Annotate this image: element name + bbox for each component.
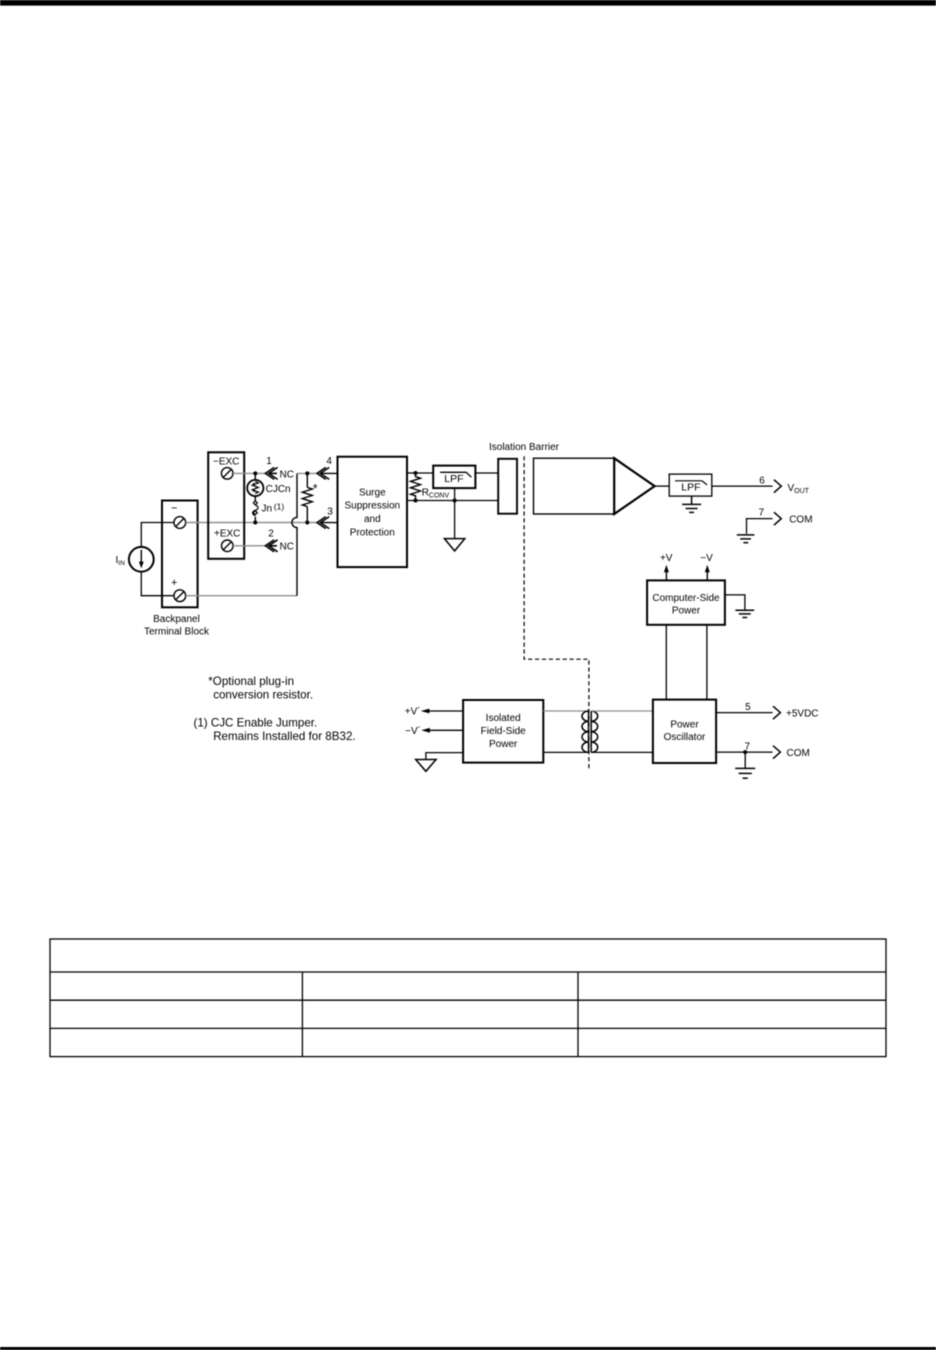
-V arrow	[706, 571, 708, 581]
svg-text:Jn: Jn	[262, 504, 273, 515]
wire LPF2 to Vout	[712, 485, 773, 487]
wire IIN top to screw1	[141, 523, 174, 547]
wire amp to LPF2	[655, 485, 670, 487]
surge suppression box U1	[338, 457, 408, 567]
bottom footer bar	[0, 1347, 936, 1350]
pin 1 connector chevron	[265, 467, 277, 479]
svg-text:5: 5	[745, 702, 751, 713]
table header row bottom line	[50, 971, 886, 973]
svg-text:7: 7	[759, 508, 765, 519]
svg-text:IIN: IIN	[116, 555, 126, 567]
pin 6 arrow	[774, 480, 781, 493]
wire row B from screw1 to pin3 (gray)	[186, 522, 316, 524]
isolated field-side power box	[463, 700, 543, 763]
-V' arrow and wire	[421, 728, 430, 733]
screw terminal +EXC	[222, 540, 234, 552]
svg-text:2: 2	[268, 529, 274, 540]
table row line 2	[50, 999, 886, 1001]
screw terminal 2	[174, 590, 186, 602]
svg-text:Protection: Protection	[350, 527, 395, 538]
pin 7 top wire	[747, 519, 773, 534]
junction node Rconv bottom	[414, 499, 418, 503]
earth ground COM bottom	[744, 752, 746, 768]
wire field power to transformer bottom	[543, 751, 588, 753]
svg-text:Oscillator: Oscillator	[664, 732, 706, 743]
svg-text:4: 4	[326, 456, 332, 467]
LPF2 box	[669, 474, 712, 496]
wire computer power to oscillator left	[665, 625, 667, 700]
svg-text:*Optional plug-in: *Optional plug-in	[208, 675, 294, 688]
isolation barrier block	[498, 459, 517, 514]
wire LPF1 bottom to ground	[454, 488, 456, 538]
wire surge bottom row to barrier	[407, 500, 498, 502]
transformer T1 secondary winding	[591, 711, 598, 752]
screw terminal 1	[174, 517, 186, 529]
svg-text:and: and	[364, 514, 381, 525]
transformer T1 primary winding	[582, 711, 589, 752]
table column divider 1	[301, 972, 303, 1057]
svg-text:+EXC: +EXC	[214, 529, 240, 540]
earth ground COM top	[737, 535, 755, 543]
junction node on row A at CJC	[253, 471, 257, 475]
LPF2 filter symbol overline	[675, 481, 707, 485]
svg-text:−: −	[171, 503, 177, 515]
ground left of field-side power	[426, 753, 463, 760]
svg-text:CJCn: CJCn	[266, 484, 291, 495]
isolated amplifier triangle	[614, 458, 654, 514]
top header bar	[0, 0, 936, 6]
svg-text:NC: NC	[280, 469, 294, 480]
svg-text:6: 6	[759, 476, 765, 487]
wire surge to LPF1	[407, 472, 433, 474]
svg-text:VOUT: VOUT	[788, 483, 810, 495]
svg-text:Field-Side: Field-Side	[481, 726, 526, 737]
wire -EXC to NC pin 1 (gray)	[233, 472, 265, 474]
power oscillator box	[653, 700, 716, 763]
wire row A corner to chevron 4 (gray)	[297, 472, 316, 474]
pin 7 bottom arrow	[773, 746, 780, 759]
svg-text:*: *	[313, 481, 318, 495]
svg-text:+: +	[171, 577, 177, 589]
optional conversion resistor (vertical zigzag)	[302, 473, 312, 522]
pin 3 connector chevron	[317, 517, 329, 529]
svg-text:Terminal Block: Terminal Block	[144, 627, 210, 638]
screw terminal -EXC	[221, 468, 233, 480]
earth ground right of computer-side power	[725, 595, 745, 610]
table column divider 2	[577, 972, 579, 1057]
wire transformer to oscillator bottom	[591, 751, 653, 753]
pin 7 bottom wire	[716, 751, 773, 753]
wire pin3 to surge box	[321, 522, 337, 524]
junction node resistor top	[305, 471, 309, 475]
junction node ground tap	[453, 499, 457, 503]
junction node resistor bottom	[305, 521, 309, 525]
EXC terminal box	[208, 452, 244, 559]
svg-text:3: 3	[327, 506, 333, 517]
resistor RCONV	[411, 473, 421, 501]
svg-text:−EXC: −EXC	[213, 456, 239, 467]
pin 2 connector chevron	[265, 540, 277, 552]
wire LPF1 to barrier	[475, 472, 498, 474]
left branch vertical wire with hop over row B	[292, 473, 297, 595]
ground triangle below Rconv	[444, 539, 464, 551]
wire IIN bottom to screw2	[141, 572, 174, 596]
svg-text:−V´: −V´	[405, 725, 421, 737]
jumper Jn	[253, 496, 258, 522]
transformer T1 secondary core side	[590, 711, 592, 752]
LPF1 box	[433, 466, 475, 489]
svg-text:NC: NC	[280, 542, 294, 553]
svg-text:Power: Power	[672, 606, 701, 617]
wire row bottom from screw2 (gray)	[186, 595, 297, 597]
pin 5 wire	[716, 712, 773, 714]
computer-side power box	[647, 580, 725, 624]
wire field power to transformer top (gray)	[543, 710, 588, 712]
svg-text:+5VDC: +5VDC	[786, 708, 819, 719]
svg-text:−V: −V	[700, 553, 713, 564]
svg-text:Isolated: Isolated	[486, 713, 521, 724]
svg-text:Backpanel: Backpanel	[153, 614, 200, 625]
wire pin4 to surge box	[321, 472, 337, 474]
wire computer power to oscillator right	[706, 625, 708, 700]
ground below LPF2	[682, 496, 701, 512]
pin 5 arrow	[773, 706, 780, 719]
isolated amplifier block	[534, 458, 615, 514]
svg-text:COM: COM	[787, 748, 810, 759]
ground triangle field-side	[416, 760, 436, 772]
wire transformer to oscillator top (gray)	[591, 710, 653, 712]
svg-text:Computer-Side: Computer-Side	[652, 593, 720, 604]
junction node on row B at CJC	[253, 521, 257, 525]
current source IIN	[129, 547, 154, 572]
isolation barrier dashed line	[524, 456, 589, 770]
svg-text:(1) CJC Enable Jumper.: (1) CJC Enable Jumper.	[194, 716, 318, 729]
svg-text:Power: Power	[489, 739, 518, 750]
junction node COM bottom	[743, 750, 747, 754]
svg-text:conversion resistor.: conversion resistor.	[213, 689, 313, 702]
svg-text:COM: COM	[789, 515, 812, 526]
svg-text:Surge: Surge	[359, 487, 386, 498]
wire +EXC to NC pin 2 (gray)	[233, 545, 265, 547]
svg-text:LPF: LPF	[444, 473, 463, 485]
svg-text:1: 1	[266, 456, 272, 467]
svg-text:+V´: +V´	[405, 706, 421, 718]
svg-text:(1): (1)	[274, 501, 285, 511]
pin 4 connector chevron	[317, 467, 329, 479]
+V arrow	[665, 571, 667, 581]
svg-text:Isolation Barrier: Isolation Barrier	[489, 442, 560, 453]
svg-text:Remains Installed for 8B32.: Remains Installed for 8B32.	[213, 730, 355, 743]
svg-text:Suppression: Suppression	[345, 501, 401, 512]
svg-text:+V: +V	[660, 553, 673, 564]
svg-text:LPF: LPF	[681, 482, 700, 494]
+V' arrow and wire	[421, 709, 430, 714]
table outer border	[50, 939, 886, 1057]
table row line 3	[50, 1027, 886, 1029]
junction node Rconv top	[414, 471, 418, 475]
transformer T1 primary core side	[588, 711, 590, 752]
backpanel terminal block box	[162, 501, 198, 608]
svg-text:RCONV: RCONV	[422, 487, 450, 499]
pin 7 arrow	[774, 512, 781, 525]
svg-text:Power: Power	[670, 719, 699, 730]
LPF1 filter symbol overline	[440, 472, 471, 477]
CJCn sensor	[247, 473, 263, 496]
